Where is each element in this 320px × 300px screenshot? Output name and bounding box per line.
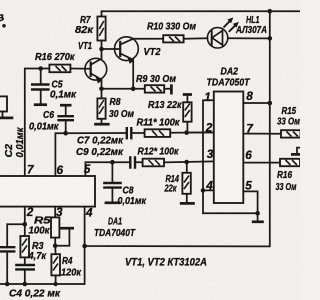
resistor R8 (94, 89, 109, 124)
wire DA1 pin2 (24, 207, 26, 225)
node R5 / R4 (53, 243, 58, 248)
node top bus / right bus junction (268, 9, 273, 14)
node LED / right bus (268, 36, 273, 41)
IC DA1 (0, 176, 95, 207)
resistor R16b (280, 159, 300, 166)
resistor R7 (97, 17, 105, 50)
node ground (255, 211, 260, 216)
wire VT2 base (102, 48, 121, 50)
wire DA2 pin5 (243, 191, 257, 221)
wire R16 line from DA1 pin7 (25, 69, 50, 177)
wire bottom supply bus (85, 207, 270, 247)
wire DA2 pin8 (243, 102, 269, 104)
capacitor C4 (15, 265, 35, 284)
node VT2 emitter (131, 87, 136, 92)
label C2 0,01мк rotated (3, 127, 26, 158)
node pin2 / R3 / C3 (23, 222, 28, 227)
node R13 / line A (184, 130, 189, 135)
node C6 / line A (63, 131, 68, 136)
IC DA2 (214, 92, 244, 204)
resistor R4 (51, 246, 60, 284)
node pin8 / right bus (268, 101, 273, 106)
node pin4 / loop (201, 188, 206, 193)
wire line B from DA1 pin5 (85, 162, 129, 176)
resistor R11 (145, 129, 214, 137)
resistor R9 (145, 84, 172, 94)
resistor R14 (180, 162, 195, 203)
wire DA2 pin1 loop to pin4 (203, 100, 258, 213)
capacitor C3 (left, clipped) (0, 247, 15, 284)
resistor R10 (163, 35, 207, 42)
node R14 / line B (184, 160, 189, 165)
node C5 tap (38, 66, 43, 71)
wire DA1 pin3 (54, 207, 56, 218)
wire DA1 pin4 down to lower-left common bus (0, 246, 85, 284)
wire top supply bus (102, 11, 301, 16)
node C8 / line B (110, 160, 115, 165)
wire emitter line to R9 (102, 88, 145, 90)
transistor VT2 (115, 37, 164, 89)
node C4 / bottom bus (23, 282, 28, 287)
ground (252, 220, 264, 223)
capacitor C7 (127, 127, 145, 139)
clipped component left edge (0, 96, 13, 118)
node DA1 pin4 on bottom bus (82, 244, 87, 249)
wire DA2 pin2 (187, 131, 214, 133)
wire DA2 pin7 (243, 133, 281, 135)
transistor VT1 (85, 49, 107, 89)
trimmer R5 (51, 217, 74, 245)
node C3 / bottom bus (5, 282, 10, 287)
capacitor C6 (57, 105, 74, 133)
resistor R15 (281, 130, 301, 137)
LED HL1 (207, 17, 269, 48)
wire line A (C6 to C7) with DA1 pin6 drop (55, 133, 126, 176)
terminal above R16 (291, 148, 300, 155)
resistor R16 270к (49, 65, 90, 73)
node R7 / VT1 collector / VT2 base (99, 47, 104, 52)
node R4 / bottom bus (53, 282, 57, 286)
capacitor C5 (31, 69, 50, 105)
capacitor C8 (103, 162, 122, 203)
wire right supply bus (269, 11, 271, 246)
wire DA2 pin6 (243, 162, 280, 164)
wire to left capacitor (7, 224, 25, 246)
resistor R3 (20, 224, 29, 264)
resistor R12 (143, 159, 214, 167)
resistor R13 (183, 95, 192, 133)
node VT1 emitter / R8 (99, 87, 104, 92)
capacitor C9 (130, 156, 142, 169)
wire DA2 pin4 (203, 189, 214, 191)
